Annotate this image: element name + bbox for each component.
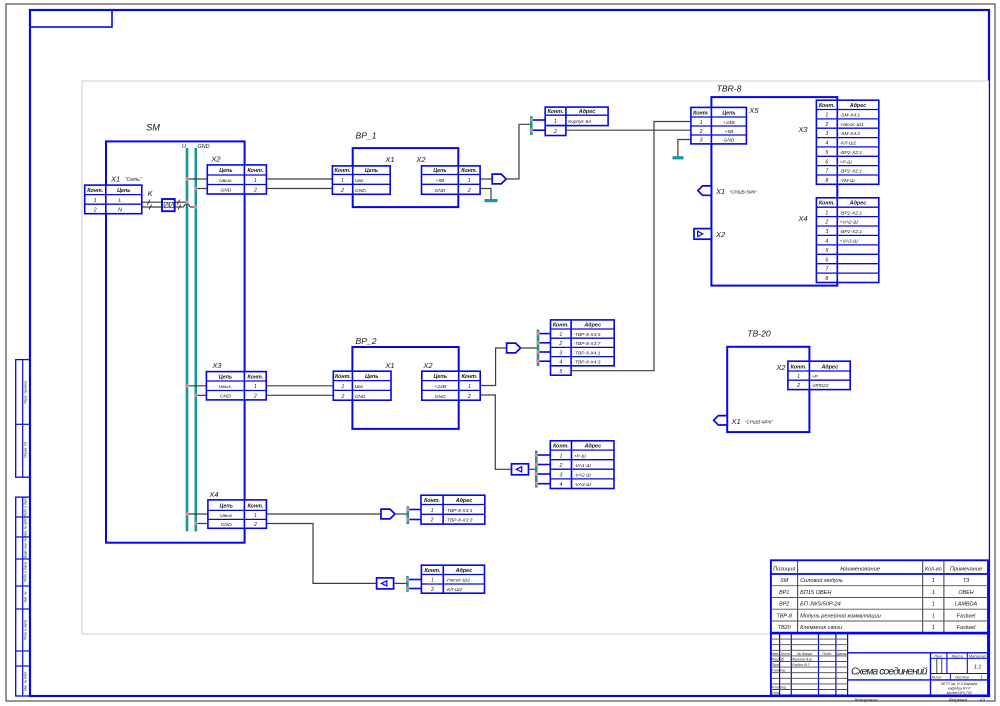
wire SM-X2:2 to BP_1-X1:2 [266,188,332,190]
label X1 (BP_2) [384,361,394,370]
svg-text:Конт.: Конт. [553,323,569,329]
svg-text:+Р-Ш: +Р-Ш [574,453,587,459]
block TB-20 [727,347,809,432]
svg-text:-SM-X4:2: -SM-X4:2 [840,131,861,137]
svg-text:6: 6 [825,159,828,165]
svg-text:Примечание: Примечание [950,566,982,572]
svg-text:Адрес: Адрес [455,498,473,504]
wire SM-X4:1 long run [266,513,381,515]
svg-text:2: 2 [253,522,257,528]
label X4 (TBR-8) [797,214,807,223]
svg-text:Цепь: Цепь [365,374,378,380]
svg-text:5: 5 [559,369,562,375]
svg-text:Конт.: Конт. [819,201,835,207]
svg-text:GND: GND [355,394,366,400]
svg-text:Цепь: Цепь [219,168,232,174]
label X3 (SM) [211,361,222,370]
svg-text:Uвых: Uвых [220,513,233,519]
wire +5V riser [506,124,531,179]
svg-text:X1: X1 [731,417,741,426]
svg-text:+VА3-Ш: +VА3-Ш [840,239,859,245]
stubs junction GND to addr rows [534,453,550,486]
stub to addr table row1 [531,119,545,121]
wire arrow to junction bar X4 GND [394,582,408,584]
svg-text:Конт.: Конт. [247,168,263,174]
svg-text:Листов: Листов [954,676,969,680]
svg-text:ВР2: ВР2 [779,602,789,608]
svg-text:Цепь: Цепь [117,188,130,194]
address table BP_2 GND [550,441,614,489]
label X1 TB-20 [731,417,774,426]
connector X1 (TBR-8, СРШВ-5МК) [698,186,712,195]
svg-text:Инв. № подл.: Инв. № подл. [24,671,28,691]
svg-text:2: 2 [253,394,257,400]
label SM [146,123,160,133]
svg-text:X5: X5 [748,106,759,115]
svg-text:X2: X2 [210,155,221,164]
svg-text:-VМ-Ш: -VМ-Ш [840,178,856,184]
label BP_2 [355,336,376,346]
svg-text:Подп. и дата: Подп. и дата [24,562,28,582]
svg-text:1: 1 [254,384,257,390]
svg-text:Конт.: Конт. [461,168,477,174]
svg-text:+5В: +5В [724,129,734,135]
svg-text:Цепь: Цепь [433,168,446,174]
svg-text:Конт.: Конт. [553,444,569,450]
svg-text:кафедра ИУ-6: кафедра ИУ-6 [948,686,971,690]
svg-text:Конт.: Конт. [247,504,263,510]
connector table BP_2-X1 [333,371,391,400]
svg-text:Силовой модуль: Силовой модуль [800,577,843,584]
wire bus U to SM-X2:1 [187,178,207,180]
svg-text:-ТВР-8-Х3:5: -ТВР-8-Х3:5 [573,332,600,338]
svg-text:Лит.: Лит. [933,654,943,658]
wire bus GND to SM-X3:2 [196,394,207,396]
svg-text:Fastwel: Fastwel [957,613,976,619]
svg-text:Позиция: Позиция [773,566,795,572]
svg-text:GND: GND [723,138,734,144]
address table BP_2 +24V [551,320,615,375]
svg-text:2: 2 [430,587,434,593]
junction bus U / X4:1 [185,512,189,517]
label X2 (TB-20) [775,363,786,372]
svg-text:-КЛ-Ш1: -КЛ-Ш1 [840,141,857,147]
wire bus GND to SM-X4:2 [196,523,208,525]
svg-text:1: 1 [932,625,935,631]
address table Насос-Ш2 [421,565,484,593]
svg-text:ТВР-8: ТВР-8 [777,613,792,619]
svg-text:5: 5 [825,150,828,156]
connector X1 (TB-20, СРШВ-МРК) [714,416,728,425]
label X1 (BP_1) [384,155,394,164]
svg-text:-ВР2-Х2:1: -ВР2-Х2:1 [840,150,863,156]
svg-text:GND: GND [221,522,232,528]
svg-text:SM: SM [780,578,789,584]
svg-text:1: 1 [559,332,562,338]
svg-text:МГТУ им. Н.Э.Баумана: МГТУ им. Н.Э.Баумана [941,682,977,686]
svg-text:1: 1 [932,590,935,596]
wire TBR-8 X5:3 to ground [678,140,691,157]
svg-text:2: 2 [558,463,562,469]
stub nasos row2 [406,586,422,591]
svg-text:Адрес: Адрес [455,568,473,574]
svg-text:1: 1 [468,178,471,184]
svg-text:“Сеть”: “Сеть” [125,177,142,183]
svg-text:3: 3 [825,229,828,235]
label X2 (BP_1) [415,155,426,164]
label TBR-8 [717,84,742,94]
svg-text:ТЗ: ТЗ [963,578,970,584]
wire addr row2 to TBR-8 X5:2 [566,129,691,131]
svg-text:№ докум.: № докум. [797,652,813,656]
connector table BP_1-X2 [422,166,481,194]
svg-text:1: 1 [431,578,434,584]
svg-text:Модуль релейной коммутации: Модуль релейной коммутации [800,612,881,619]
label X2 (BP_2) [422,361,433,370]
svg-text:Цепь: Цепь [219,374,232,380]
svg-text:2: 2 [796,383,800,389]
ground bar TBR-8 [673,156,684,159]
label X1 TBR-8 [715,187,757,196]
wire SM-X2:1 to BP_1-X1:1 [266,178,332,180]
svg-text:БП JWS/50Р-24: БП JWS/50Р-24 [800,602,841,608]
svg-text:Конт.: Конт. [693,110,709,116]
connector arrow X4:2 in [377,578,394,589]
wire arrow to junction bar GND [529,468,537,470]
svg-text:группа ИУ6-Т02: группа ИУ6-Т02 [947,691,972,695]
svg-text:Фролов А.В.: Фролов А.В. [792,658,812,662]
svg-text:GND: GND [435,394,446,400]
svg-text:Цепь: Цепь [433,374,446,380]
svg-text:Схема соединений: Схема соединений [851,667,928,678]
svg-text:2: 2 [467,394,471,400]
svg-text:2: 2 [558,341,562,347]
svg-text:1: 1 [254,513,257,519]
connector table SM-X1 [85,185,142,214]
svg-text:1: 1 [559,453,562,459]
svg-text:Масштаб: Масштаб [969,654,988,658]
svg-text:Конт.: Конт. [819,103,835,109]
svg-text:2: 2 [340,188,344,194]
svg-text:2: 2 [93,207,97,213]
label TB-20 [747,329,771,339]
svg-text:Корпус БА: Корпус БА [568,119,592,125]
svg-text:Конт.: Конт. [424,568,440,574]
block SM [106,141,245,542]
svg-text:-VА3-Ш: -VА3-Ш [574,482,592,488]
svg-text:Uвх: Uвх [355,178,364,184]
svg-text:GND: GND [434,188,445,194]
bus GND vertical [195,148,198,531]
wire SM-X1:2 to contact K [142,204,162,209]
svg-text:Uвых.: Uвых. [219,178,233,184]
block TBR-8 [711,97,837,286]
junction bar X4 (teal) [406,506,409,524]
svg-text:БП15 ОВЕН: БП15 ОВЕН [800,590,832,596]
junction bar +5V (teal) [530,116,533,135]
junction mark +5V row2 [529,128,533,133]
svg-text:Конт.: Конт. [335,168,351,174]
connector arrow X4:1 out [381,509,395,519]
svg-text:-ТВР-8-Х4:3: -ТВР-8-Х4:3 [573,360,600,366]
svg-text:Лист: Лист [931,676,942,680]
label Формат А3 [949,698,985,703]
label Копировал [855,698,878,703]
junction bus U / X3:1 [185,384,189,389]
frame left stamp (upper group) [16,360,30,478]
svg-text:-ВР2-Х2:1: -ВР2-Х2:1 [840,169,863,175]
junction bar GND (teal) [535,451,538,488]
address table TB-20-X2 [788,361,850,389]
svg-text:X4: X4 [208,490,218,499]
wire BP_1-X2:1 (+5V) to junction bar [480,178,492,180]
connector arrow +5V out [492,174,506,184]
svg-text:Инв. №: Инв. № [24,591,28,602]
svg-text:2: 2 [553,129,557,135]
svg-text:X1: X1 [384,361,394,370]
junction bus GND / K wire [194,205,198,210]
svg-text:Конт.: Конт. [87,188,103,194]
svg-text:TBR-8: TBR-8 [717,84,742,94]
junction mark +5V row1 [529,118,533,123]
svg-text:Подп. и дата: Подп. и дата [24,497,28,517]
svg-text:Uвых.: Uвых. [219,384,233,390]
connector table TBR-8-X5 [691,107,747,143]
svg-text:+VА2-Ш: +VА2-Ш [840,220,859,226]
svg-text:-VА1-Ш: -VА1-Ш [574,463,592,469]
svg-text:4: 4 [825,239,828,245]
svg-text:Масса: Масса [951,654,962,658]
svg-text:2: 2 [430,518,434,524]
svg-text:Подп. и дата: Подп. и дата [24,620,28,640]
junction bus U / K wire [185,200,189,205]
svg-text:GND: GND [197,144,209,150]
svg-text:1: 1 [431,508,434,514]
address table 'Корпус БА' [545,107,608,135]
svg-text:“СРШВ-5МК”: “СРШВ-5МК” [730,190,758,195]
svg-text:+Р-Ш: +Р-Ш [840,159,853,165]
svg-text:Инв. № дубл.: Инв. № дубл. [24,517,28,537]
svg-text:Цепь: Цепь [365,168,378,174]
connector arrow GND in [512,464,529,475]
svg-text:-Насос-Ш1: -Насос-Ш1 [840,122,865,128]
svg-text:+Р: +Р [812,374,819,380]
svg-text:-ТВР-8-Х3:1: -ТВР-8-Х3:1 [445,508,472,514]
label K [148,189,154,198]
svg-text:X2: X2 [775,363,786,372]
svg-text:1: 1 [700,120,703,126]
svg-text:+24В: +24В [723,120,735,126]
svg-text:Т.контр.: Т.контр. [772,669,787,673]
svg-text:2: 2 [467,188,471,194]
svg-text:8: 8 [825,178,828,184]
stub X4 addr row1 [406,507,421,512]
svg-text:U: U [182,144,186,150]
svg-text:X4: X4 [797,214,807,223]
address table TBR-8-X3 [816,100,878,184]
wire BP_2-X2:1 (+24V) riser [480,348,506,386]
svg-text:Копировал: Копировал [855,698,878,703]
svg-text:-ТВР-8-Х4:1: -ТВР-8-Х4:1 [573,350,600,356]
svg-text:Утв.: Утв. [772,691,780,695]
label X2 TBR-8 [715,230,726,239]
svg-text:Конт.: Конт. [548,109,564,115]
stub nasos row1 [406,577,422,582]
svg-text:1: 1 [932,602,935,608]
svg-text:1: 1 [341,384,344,390]
svg-text:1:1: 1:1 [974,665,982,671]
svg-text:1: 1 [468,384,471,390]
svg-text:X2: X2 [415,155,426,164]
svg-text:Конт.: Конт. [335,374,351,380]
label X3 (TBR-8) [797,125,808,134]
svg-text:3: 3 [825,131,828,137]
svg-text:Цепь: Цепь [219,504,232,510]
svg-text:Изм.: Изм. [771,652,779,656]
svg-text:BP_1: BP_1 [355,131,376,141]
svg-text:X2: X2 [715,230,726,239]
svg-text:1: 1 [554,119,557,125]
svg-text:GND: GND [220,188,231,194]
wire contact K to bus GND [175,204,196,210]
svg-text:1: 1 [94,198,97,204]
relay contact K [162,199,175,211]
svg-text:6: 6 [825,257,828,263]
svg-text:Конт.: Конт. [461,374,477,380]
svg-text:-КЛ-Ш2: -КЛ-Ш2 [446,587,463,593]
svg-text:2: 2 [824,220,828,226]
svg-text:2: 2 [340,394,344,400]
wire TBR-8 X5:1 to BP_2 +24V [571,122,691,371]
junction bus GND / X2:2 [194,186,198,191]
svg-text:1: 1 [825,210,828,216]
svg-text:1: 1 [825,113,828,119]
svg-text:GND: GND [220,394,231,400]
block BP_2 [352,347,458,429]
svg-text:3: 3 [559,350,562,356]
wire bus GND to SM-X2:2 [196,188,208,190]
svg-text:8: 8 [825,276,828,282]
svg-text:Взам. инв. №: Взам. инв. № [24,538,28,558]
svg-text:4: 4 [559,482,562,488]
connector table SM-X2 [207,165,266,194]
svg-text:-VА2-Ш: -VА2-Ш [574,473,592,479]
svg-text:Дата: Дата [836,652,846,656]
wire SM-X3:2 to BP_2-X1:2 [266,394,333,396]
svg-text:Конт.: Конт. [791,364,807,370]
connector table BP_2-X2 [422,371,480,400]
svg-text:Цепь: Цепь [722,110,735,116]
svg-text:-ТВР-8-Х3:3: -ТВР-8-Х3:3 [445,518,472,524]
label X1 'Сеть' (SM) [110,175,142,184]
junction bus U / X2:1 [185,177,189,182]
frame left stamp (lower group) [16,497,30,696]
frame top-left stamp box [30,10,112,27]
svg-text:Кол-во: Кол-во [925,566,942,572]
connector X2 (TBR-8) [694,229,711,240]
svg-text:N: N [118,207,122,213]
svg-text:GND: GND [355,188,366,194]
svg-text:Перв. примен.: Перв. примен. [24,380,28,404]
svg-text:-SM-X4:1: -SM-X4:1 [840,113,861,119]
svg-text:Fastwel: Fastwel [957,625,976,631]
stub X4 addr row2 [406,517,421,522]
svg-text:Адрес: Адрес [578,109,596,115]
svg-text:+5В: +5В [435,178,445,184]
svg-text:ВР1: ВР1 [779,590,789,596]
svg-text:2: 2 [253,188,257,194]
svg-text:X1: X1 [715,187,725,196]
wire SM-X3:1 to BP_2-X1:1 [266,385,333,387]
svg-text:2: 2 [699,129,703,135]
title block (штамп) [771,634,988,696]
svg-text:3: 3 [559,473,562,479]
svg-text:SM: SM [146,123,160,133]
wire BP_2-X2:2 (GND) drop [480,395,511,469]
svg-text:Клеммник связи: Клеммник связи [800,625,842,631]
drawing content area (gray) [82,81,989,634]
svg-text:Адрес: Адрес [584,444,602,450]
bus U (+) vertical [186,148,189,531]
svg-text:Н.контр.: Н.контр. [772,686,787,690]
svg-text:Справ. №: Справ. № [24,442,28,458]
connector table BP_1-X1 [332,166,390,194]
label U [182,144,186,150]
wire SM-X4:2 drop [266,524,376,584]
svg-text:Конт.: Конт. [247,374,263,380]
svg-text:-Насос-Ш2: -Насос-Ш2 [446,578,471,584]
svg-text:1: 1 [932,578,935,584]
svg-text:ТВ20: ТВ20 [778,625,791,631]
svg-text:X1: X1 [384,155,394,164]
address table TBR-8-X4 [816,198,878,283]
svg-text:-ТВР-8-Х3:7: -ТВР-8-Х3:7 [573,341,600,347]
svg-text:2: 2 [824,122,828,128]
svg-text:Адрес: Адрес [849,103,867,109]
wire bus U to SM-X4:1 [187,513,208,515]
junction bus GND / X3:2 [194,393,198,398]
svg-text:1: 1 [254,178,257,184]
wire BP_1-X2:2 to ground [480,189,491,200]
svg-text:L: L [119,198,122,204]
connector arrow +24V out [507,343,521,353]
svg-text:1: 1 [932,613,935,619]
label BP_1 [355,131,376,141]
svg-text:Адрес: Адрес [583,323,601,329]
wire bus U to SM-X3:1 [187,385,206,387]
svg-text:-ИП022: -ИП022 [812,383,829,389]
svg-text:Наименование: Наименование [840,566,881,572]
svg-text:TB-20: TB-20 [747,329,771,339]
svg-text:1: 1 [980,675,982,680]
svg-text:Адрес: Адрес [821,364,839,370]
svg-text:Разраб.: Разраб. [772,658,785,662]
svg-text:-ВР2-Х2:1: -ВР2-Х2:1 [840,229,863,235]
wire SM-X1:1 to contact K [142,200,162,205]
label X4 (SM) [208,490,218,499]
svg-text:Подп.: Подп. [822,652,832,656]
svg-text:Пров.: Пров. [772,663,781,667]
svg-text:X3: X3 [797,125,808,134]
svg-text:BP_2: BP_2 [355,336,376,346]
junction bar X4 GND (teal) [406,576,409,592]
svg-text:Рыбин В.Г.: Рыбин В.Г. [792,663,810,667]
svg-text:1: 1 [341,178,344,184]
junction bar +24V (teal) [537,330,540,367]
svg-text:LAMBDA: LAMBDA [955,602,978,608]
junction bus GND / X4:2 [194,521,198,526]
svg-text:“СРШВ-МРК”: “СРШВ-МРК” [745,420,773,425]
